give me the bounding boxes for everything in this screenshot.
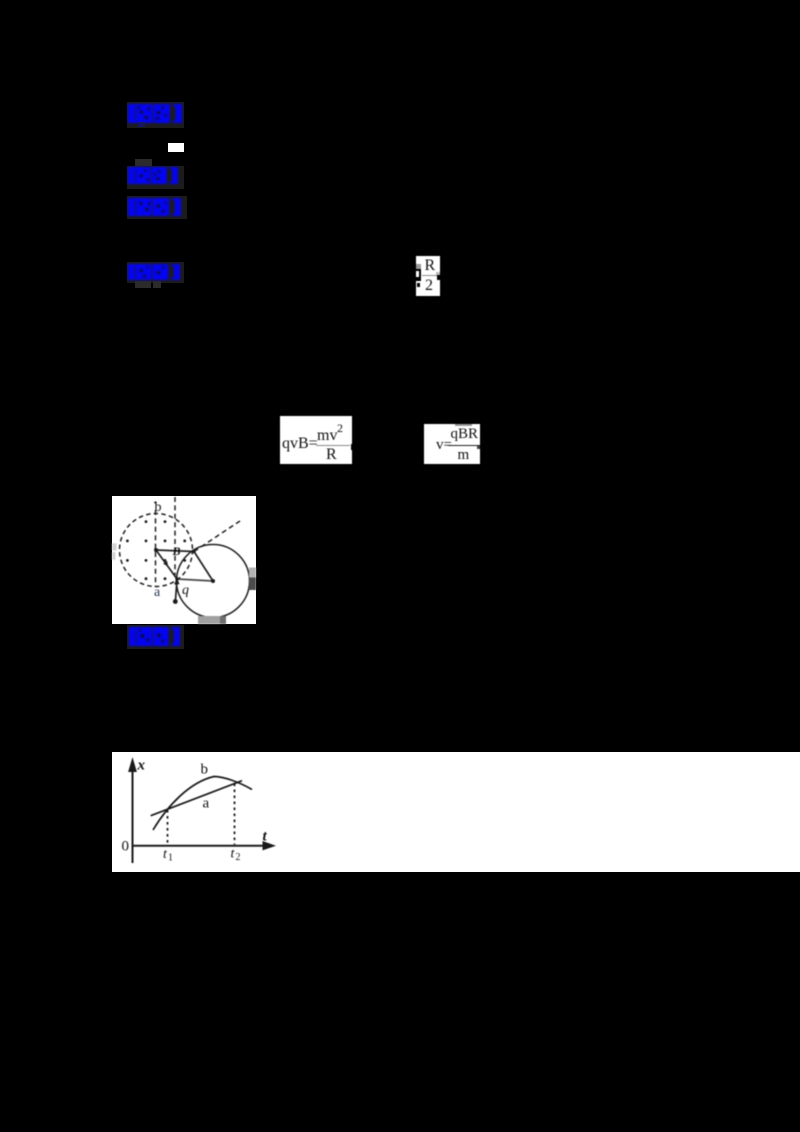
heading bg 解答 xyxy=(127,262,184,283)
curve b xyxy=(153,777,252,831)
line a xyxy=(151,781,242,816)
dashed t1 xyxy=(167,810,169,845)
figure: two circles xyxy=(112,496,256,624)
svg-text:q: q xyxy=(182,583,189,598)
dashed field circle xyxy=(120,514,193,587)
formula image: qvB = mv^2/R xyxy=(280,416,352,464)
edge ghost patches xyxy=(112,543,256,624)
svg-text:b: b xyxy=(201,762,209,778)
radii / chords xyxy=(156,550,194,552)
arrow mark on O1-P2 line xyxy=(163,561,168,567)
arrow for q xyxy=(176,582,177,600)
formula image: g R/2 xyxy=(416,256,440,296)
dark blue remnant below heading 1 xyxy=(138,122,145,127)
ghost box below 解答 xyxy=(135,281,151,288)
heading bg 点评 xyxy=(127,625,184,649)
solid circle xyxy=(177,545,250,618)
field dots xyxy=(145,520,148,523)
dashed diagonal velocity line xyxy=(194,521,240,552)
svg-text:0: 0 xyxy=(122,839,130,855)
heading 【考点】 xyxy=(128,104,182,123)
heading bg 考点 xyxy=(127,102,184,128)
y axis xyxy=(132,768,134,863)
svg-text:1: 1 xyxy=(168,853,173,864)
heading bg 分析 xyxy=(127,196,187,219)
dashed vertical line 2 xyxy=(174,497,176,575)
dashed chord line b-a xyxy=(155,510,157,587)
graph band xyxy=(112,752,800,872)
heading bg 专题 xyxy=(127,166,184,189)
svg-text:B: B xyxy=(172,544,181,558)
heading 【点评】 xyxy=(129,627,180,646)
ghost box above 专题 xyxy=(135,159,152,167)
svg-text:b: b xyxy=(155,500,162,515)
small white equation fragment xyxy=(168,143,184,152)
heading 【分析】 xyxy=(128,198,181,216)
svg-text:2: 2 xyxy=(236,852,241,863)
dashed t2 xyxy=(234,784,236,845)
x axis xyxy=(133,845,265,847)
svg-text:t: t xyxy=(263,829,268,845)
svg-text:a: a xyxy=(203,796,210,812)
svg-text:x: x xyxy=(137,758,146,774)
heading 【解答】 xyxy=(128,264,180,280)
heading 【专题】 xyxy=(128,167,178,184)
svg-text:a: a xyxy=(154,585,161,600)
formula image: v = qBR/m xyxy=(424,424,480,464)
